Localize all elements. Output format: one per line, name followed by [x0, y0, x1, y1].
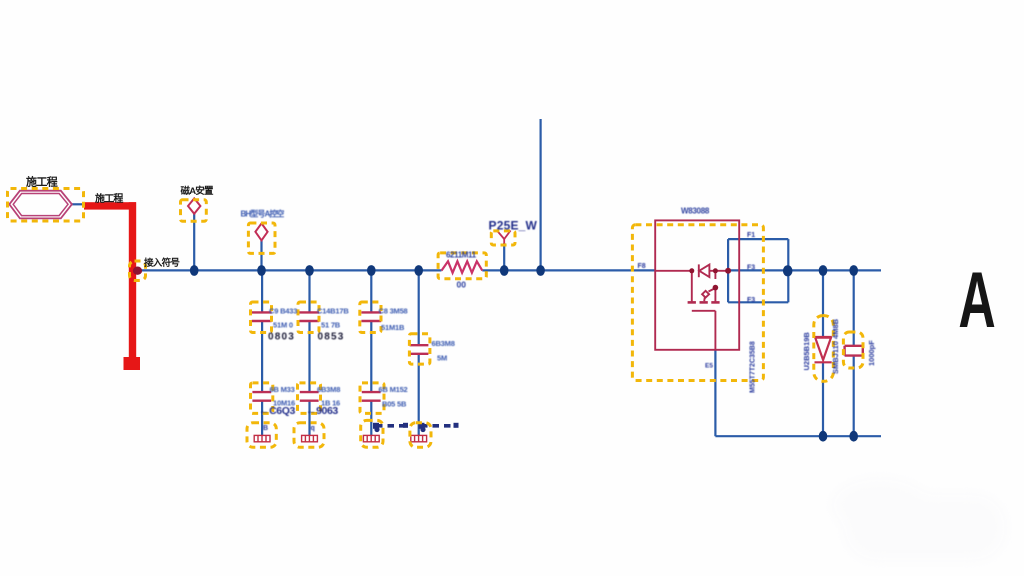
- svg-text:B05 5B: B05 5B: [382, 400, 407, 409]
- svg-text:6B M33: 6B M33: [270, 385, 295, 394]
- svg-text:←9063: ←9063: [306, 405, 338, 417]
- svg-text:51M1B: 51M1B: [381, 323, 405, 332]
- svg-text:C14B17B: C14B17B: [317, 307, 349, 316]
- svg-text:0853: 0853: [318, 332, 345, 343]
- svg-text:6B3M8: 6B3M8: [432, 339, 455, 348]
- svg-text:施工程: 施工程: [95, 192, 123, 205]
- svg-text:F8: F8: [638, 263, 646, 270]
- svg-text:磁A安置: 磁A安置: [181, 185, 214, 197]
- svg-text:施工程: 施工程: [26, 175, 58, 189]
- svg-text:P25E_W: P25E_W: [489, 219, 538, 233]
- svg-text:6211M11: 6211M11: [446, 251, 477, 260]
- svg-text:6B M152: 6B M152: [379, 385, 408, 394]
- svg-text:00: 00: [457, 280, 467, 290]
- svg-text:A: A: [958, 257, 995, 345]
- svg-text:←C6Q3: ←C6Q3: [259, 405, 295, 417]
- svg-text:C8 3M58: C8 3M58: [379, 307, 408, 316]
- svg-text:6B3M8: 6B3M8: [317, 385, 340, 394]
- svg-text:F1: F1: [747, 232, 755, 239]
- svg-text:E5: E5: [705, 363, 713, 370]
- svg-text:C9 B433: C9 B433: [269, 307, 297, 316]
- svg-text:U2B5B19B: U2B5B19B: [802, 332, 811, 371]
- svg-text:F3: F3: [747, 297, 755, 304]
- svg-text:B: B: [263, 425, 268, 432]
- svg-text:W83088: W83088: [681, 207, 710, 216]
- svg-text:51 7B: 51 7B: [321, 321, 341, 330]
- svg-text:q: q: [311, 425, 315, 432]
- svg-text:F3: F3: [747, 265, 755, 272]
- svg-text:1000pF: 1000pF: [867, 340, 876, 366]
- svg-text:接入符号: 接入符号: [144, 257, 180, 269]
- svg-text:SMBJ110 4M8B: SMBJ110 4M8B: [831, 318, 840, 374]
- svg-text:M55T7T2C35B8: M55T7T2C35B8: [750, 341, 757, 393]
- svg-text:0803: 0803: [268, 332, 295, 343]
- svg-text:5M: 5M: [437, 354, 447, 363]
- svg-text:BH型号A控空: BH型号A控空: [241, 209, 285, 219]
- svg-text:51M 0: 51M 0: [273, 321, 293, 330]
